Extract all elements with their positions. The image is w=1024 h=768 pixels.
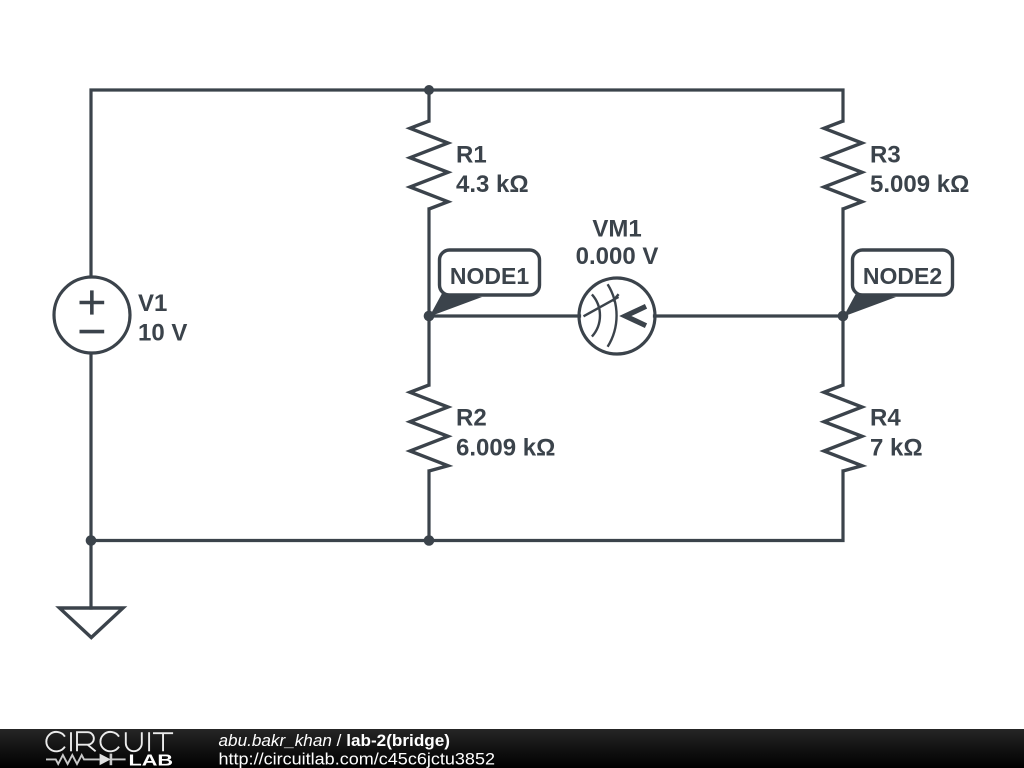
wire R1 top stub <box>427 90 430 121</box>
footer bar <box>0 729 1024 768</box>
svg-text:6.009 kΩ: 6.009 kΩ <box>456 435 555 462</box>
svg-text:5.009 kΩ: 5.009 kΩ <box>870 171 969 198</box>
node ground-rail junction dot at R2 <box>424 535 435 546</box>
svg-text:abu.bakr_khan / lab-2(bridge): abu.bakr_khan / lab-2(bridge) <box>219 732 451 750</box>
CircuitLab logo resistor-diode squiggle <box>46 754 126 766</box>
svg-text:10 V: 10 V <box>138 320 187 347</box>
wire node2 to R4 top <box>841 316 844 385</box>
svg-text:R3: R3 <box>870 142 901 169</box>
svg-text:V1: V1 <box>138 290 167 317</box>
wire R3 bottom to node2 <box>841 209 844 316</box>
resistor R1 <box>410 121 448 209</box>
svg-text:R4: R4 <box>870 405 901 432</box>
svg-text:7 kΩ: 7 kΩ <box>870 435 923 462</box>
resistor R3 <box>824 121 862 209</box>
wire R1 bottom to node1 <box>427 209 430 316</box>
resistor R4 <box>824 385 862 471</box>
svg-text:VM1: VM1 <box>592 216 641 243</box>
svg-text:http://circuitlab.com/c45c6jct: http://circuitlab.com/c45c6jctu3852 <box>219 751 496 768</box>
ground <box>60 608 124 638</box>
voltage source V1 <box>54 277 130 353</box>
wire node1 to VM1 left <box>429 314 580 317</box>
wire bottom rail <box>91 471 843 541</box>
node NODE2 label bubble <box>844 250 953 317</box>
svg-text:4.3 kΩ: 4.3 kΩ <box>456 171 529 198</box>
wire R2 bottom to bottom rail <box>427 471 430 541</box>
wire top rail <box>91 90 843 277</box>
svg-text:LAB: LAB <box>129 752 174 768</box>
wire V1 bottom to ground rail <box>89 354 92 541</box>
svg-text:R2: R2 <box>456 405 487 432</box>
resistor R2 <box>410 385 448 471</box>
CircuitLab logo diode triangle <box>100 754 111 766</box>
ground stem wire <box>89 541 92 609</box>
wire VM1 right to node2 <box>655 314 844 317</box>
svg-text:R1: R1 <box>456 142 487 169</box>
node NODE2 junction dot <box>838 311 849 322</box>
node NODE1 label bubble <box>430 250 540 317</box>
node A junction dot top of R1 <box>424 85 434 95</box>
svg-text:NODE2: NODE2 <box>863 263 942 289</box>
voltmeter VM1 <box>579 278 655 354</box>
wire node1 to R2 top <box>427 316 430 385</box>
svg-text:NODE1: NODE1 <box>450 263 529 289</box>
CircuitLab logo CIRCUIT (thin geometric letters) <box>46 732 173 751</box>
node NODE1 junction dot <box>424 311 435 322</box>
svg-text:0.000 V: 0.000 V <box>576 243 659 270</box>
node ground junction dot <box>86 535 97 546</box>
